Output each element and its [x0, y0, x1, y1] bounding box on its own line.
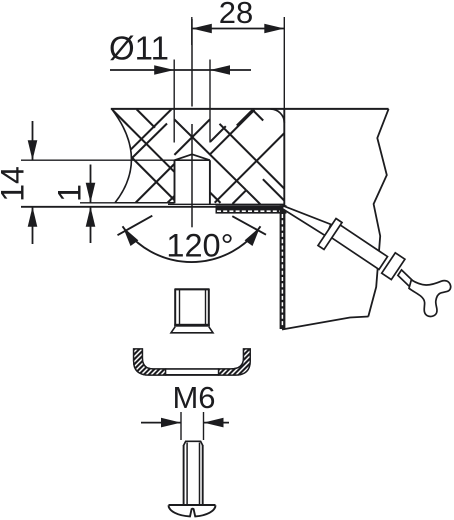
- angle ray left: [118, 216, 153, 236]
- dim M6 extension right: [203, 412, 205, 440]
- svg-text:M6: M6: [172, 380, 215, 415]
- blind hole shoulder line: [175, 159, 210, 161]
- dim 28 line: [192, 28, 284, 30]
- screw head underside: [169, 504, 216, 506]
- dim 28 extension right: [283, 17, 285, 108]
- dim 1 line lower: [90, 207, 92, 243]
- svg-text:28: 28: [219, 0, 253, 30]
- dim M6 line right: [204, 422, 230, 424]
- dim 28 extension left: [191, 17, 193, 45]
- caulking gun barrel: [327, 222, 387, 269]
- right panel break edge: [368, 109, 388, 317]
- svg-text:120°: 120°: [166, 228, 233, 264]
- dim D11 extension right: [209, 60, 211, 143]
- dim D11 extension left: [173, 60, 175, 143]
- blind hole right wall: [209, 160, 211, 204]
- caulking gun front collar: [318, 219, 342, 250]
- sealant top line: [168, 203, 284, 205]
- caulking gun handle: [409, 280, 451, 317]
- svg-text:14: 14: [0, 166, 31, 202]
- washer middle lines (through hole): [166, 368, 219, 370]
- dim 14 line lower: [32, 207, 34, 244]
- worktop bottom edge: [115, 202, 175, 204]
- right panel bottom edge: [282, 317, 369, 330]
- dim D11 line: [110, 69, 251, 71]
- screw head dome with slot: [169, 505, 216, 516]
- angle arc: [123, 226, 261, 262]
- sealant bottom extension line: [21, 206, 216, 208]
- dim 14 extension top: [21, 159, 175, 161]
- dim 14 line upper: [32, 121, 34, 160]
- caulking gun rear collar: [382, 253, 405, 280]
- hole centerline: [191, 19, 193, 107]
- blind hole left wall: [174, 160, 176, 203]
- caulking gun piston rod: [398, 270, 413, 287]
- sealant bead horizontal: [216, 205, 287, 213]
- drill point 120deg tip: [175, 154, 210, 160]
- caulking gun nozzle: [282, 206, 331, 236]
- recess line 1mm: [80, 202, 158, 204]
- svg-text:Ø11: Ø11: [109, 30, 169, 67]
- svg-text:1: 1: [52, 184, 88, 202]
- fillet at notch corner: [271, 109, 285, 123]
- insert sleeve bottom band: [174, 324, 209, 327]
- screw shank chamfer: [184, 441, 203, 445]
- dim 1 line upper: [90, 165, 92, 203]
- dim M6 line left: [141, 422, 181, 424]
- sealant bead vertical: [280, 205, 286, 329]
- insert sleeve flared skirt: [171, 327, 213, 333]
- joint line right edge of section: [283, 109, 285, 206]
- worktop top edge: [111, 108, 389, 110]
- worktop left break-line arc: [112, 109, 132, 203]
- angle ray right: [232, 216, 266, 235]
- insert sleeve body: [175, 288, 209, 290]
- screw shank: [183, 445, 185, 505]
- dim M6 extension left: [180, 412, 182, 440]
